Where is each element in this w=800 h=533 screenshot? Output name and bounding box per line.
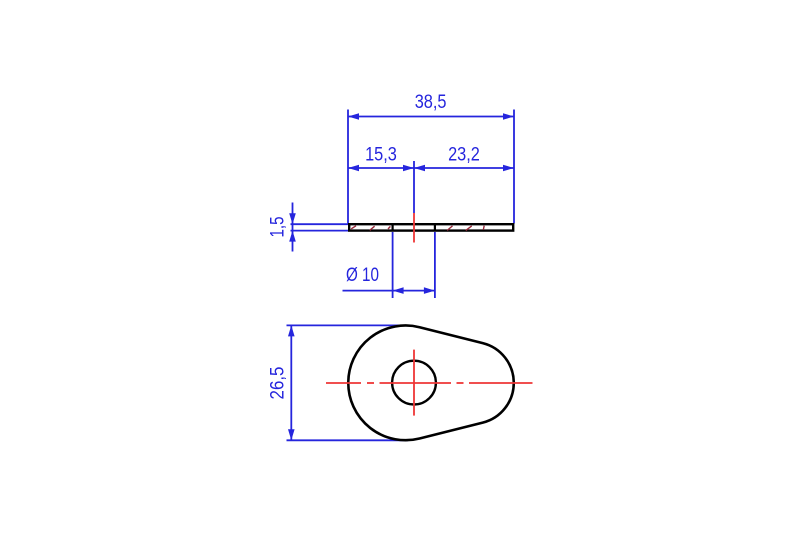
extension line left (plate left edge) [347,110,349,224]
dimension line 1,5 (vertical, outside arrows) [289,203,296,252]
centerline of hole through plate (red) [413,213,415,243]
hatching left cell [351,226,390,231]
plate section outline [349,224,513,230]
dimension line Ø 10 with leader [343,287,435,294]
extension line right (plate right edge) [513,110,515,224]
svg-text:1,5: 1,5 [266,216,288,237]
dimension line 38,5 [348,113,514,120]
extension line bottom of plan view [287,439,409,441]
dimension 15,3 label [365,143,397,164]
dimension line 15,3 / 23,2 [348,165,514,172]
dimension line 26,5 [288,325,295,440]
vertical centerline (red) [413,350,415,416]
svg-text:15,3: 15,3 [365,143,397,164]
dimension 1,5 label (rotated) [266,216,288,237]
hole left edge in section [392,223,394,231]
extension line hole right edge (below plate) [434,232,436,298]
extension line top of plan view [287,324,405,326]
dimension 26,5 label (rotated) [267,367,288,400]
hatching right cell [447,226,484,231]
extension line plate bottom (1,5) [291,230,349,232]
svg-text:23,2: 23,2 [448,143,480,164]
centerline of hole (blue upper part) [413,161,415,213]
svg-text:Ø 10: Ø 10 [346,263,379,285]
extension line plate top (1,5) [291,223,349,225]
svg-text:26,5: 26,5 [267,367,288,400]
dimension Ø 10 label [346,263,379,285]
hole Ø10 (plan view) [392,361,436,405]
extension line hole left edge (below plate) [392,232,394,298]
dimension 38,5 label [415,91,447,112]
hole right edge in section [434,223,436,231]
horizontal centerline (red, dash-dot) [326,382,533,384]
teardrop plate outline (plan view) [348,325,513,440]
dimension 23,2 label [448,143,480,164]
svg-text:38,5: 38,5 [415,91,447,112]
